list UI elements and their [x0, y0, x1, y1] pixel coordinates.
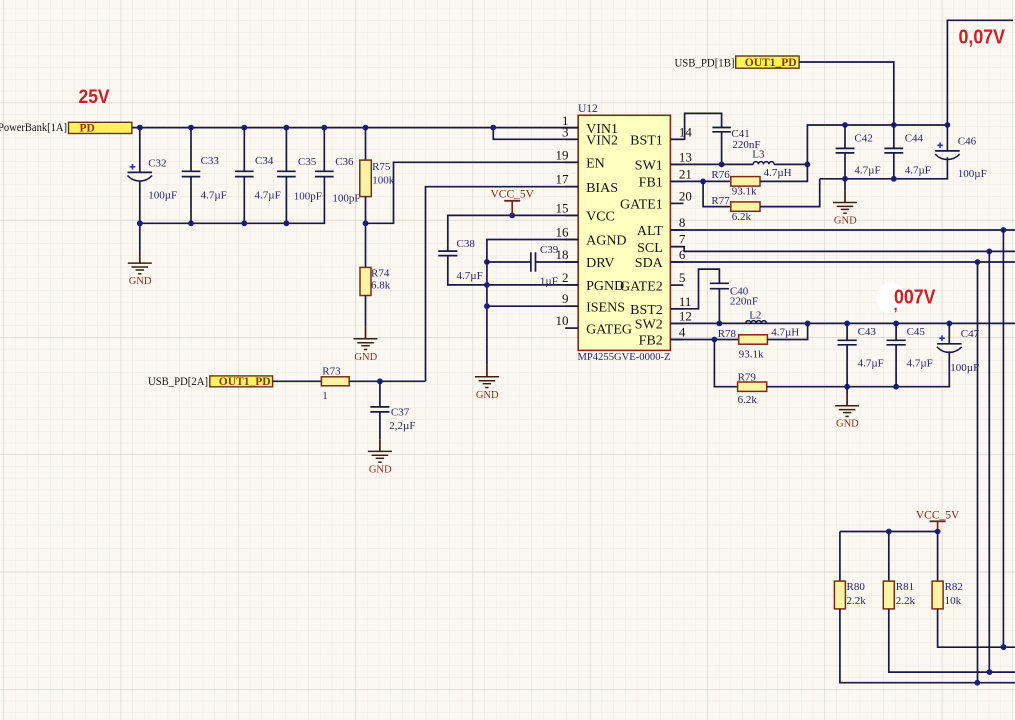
svg-text:R77: R77 [711, 195, 730, 207]
svg-text:17: 17 [556, 172, 570, 187]
wire R8x top bus [840, 529, 941, 535]
power VCC_5V bottom [916, 510, 960, 532]
wire SCL riser [988, 251, 990, 672]
svg-text:100k: 100k [372, 174, 395, 186]
svg-text:4.7µF: 4.7µF [858, 358, 884, 370]
svg-text:VIN2: VIN2 [586, 134, 618, 149]
inductor L2 [746, 309, 800, 338]
capacitor C47 leads [948, 323, 950, 343]
white highlight blob [877, 283, 906, 314]
wire DRV to C39 [536, 261, 579, 263]
svg-text:14: 14 [679, 124, 693, 139]
wire L3 to node [774, 162, 810, 168]
svg-text:C46: C46 [958, 136, 977, 148]
svg-text:18: 18 [556, 247, 569, 262]
wire FB1 net [670, 179, 730, 185]
capacitor C43 [838, 326, 884, 370]
svg-text:2.2k: 2.2k [847, 595, 867, 607]
svg-text:GND: GND [836, 419, 859, 430]
svg-text:FB2: FB2 [639, 334, 663, 349]
junction dots VIN bus [137, 125, 496, 131]
wire R76 to SW1 node [760, 164, 807, 181]
ground GND AGND [475, 365, 499, 401]
svg-text:4.7µF: 4.7µF [854, 165, 880, 177]
resistor R77 [711, 195, 760, 223]
wire R80 top lead [839, 532, 841, 582]
capacitor C45 leads [895, 323, 897, 386]
svg-text:C33: C33 [201, 155, 220, 167]
svg-text:0,07V: 0,07V [959, 27, 1006, 49]
svg-text:GATE2: GATE2 [620, 279, 663, 294]
junction dots out1 top bus [842, 122, 950, 128]
resistor R74 [360, 267, 391, 295]
svg-text:5: 5 [679, 270, 686, 285]
svg-text:7: 7 [679, 232, 686, 247]
wire SDA riser [977, 262, 979, 683]
svg-text:93.1k: 93.1k [732, 185, 757, 197]
svg-text:9: 9 [562, 291, 569, 306]
wire R74 bottom lead [365, 296, 367, 327]
svg-text:,: , [894, 297, 898, 314]
wire C41 to SW1 [719, 132, 725, 168]
svg-text:MP4255GVE-0000-Z: MP4255GVE-0000-Z [578, 351, 671, 363]
svg-text:L2: L2 [749, 309, 761, 321]
svg-text:4: 4 [679, 325, 686, 340]
capacitor C40 [710, 283, 758, 307]
svg-text:20: 20 [679, 188, 692, 203]
wire R82 top lead [937, 532, 939, 582]
wire OUT1_PD to R73 [273, 380, 322, 382]
svg-text:GATEG: GATEG [586, 322, 632, 337]
svg-text:GND: GND [369, 464, 392, 475]
wire EN net [366, 162, 579, 223]
resistor R73 [321, 366, 349, 402]
svg-text:OUT1_PD: OUT1_PD [219, 376, 271, 388]
svg-text:6.2k: 6.2k [738, 394, 758, 406]
wire R77 to gnd bus [760, 179, 820, 207]
net label OUT1_PD box 1B [736, 56, 799, 69]
ground GND C37 [368, 439, 392, 475]
svg-text:4.7µF: 4.7µF [255, 189, 281, 201]
capacitor C34 [235, 155, 281, 201]
capacitor C42 leads [844, 125, 846, 179]
capacitor C36 leads [323, 128, 325, 172]
svg-text:GND: GND [476, 390, 499, 401]
net label OUT1_PD box 2A [210, 376, 273, 388]
svg-text:6.2k: 6.2k [732, 211, 752, 223]
svg-text:SDA: SDA [635, 256, 664, 271]
wire ALT net [670, 227, 1015, 233]
svg-text:1µF: 1µF [540, 275, 558, 287]
voltage label 25V [79, 87, 110, 108]
wire AGND chain [487, 240, 578, 365]
capacitor C47 [937, 328, 980, 374]
svg-text:R79: R79 [738, 372, 757, 384]
capacitor C44 [884, 133, 931, 177]
junction C32 bottom [137, 220, 143, 226]
svg-text:100pF: 100pF [294, 190, 322, 202]
wire VIN2 jog [493, 128, 578, 140]
ground GND R74 [354, 327, 378, 363]
svg-text:VCC_5V: VCC_5V [490, 188, 534, 200]
svg-text:ALT: ALT [637, 224, 663, 239]
svg-text:GATE1: GATE1 [620, 198, 663, 213]
port USB_PD[1B] [675, 55, 735, 69]
svg-text:R76: R76 [711, 169, 730, 181]
wire SW2 net [670, 322, 1015, 324]
svg-text:C35: C35 [298, 156, 317, 168]
svg-text:007V: 007V [894, 287, 936, 309]
svg-text:10k: 10k [945, 595, 962, 607]
svg-text:U12: U12 [578, 103, 598, 115]
wire R73 to BIAS riser [349, 378, 425, 384]
svg-text:L3: L3 [752, 149, 765, 161]
resistor R79 [738, 372, 767, 406]
inductor L3 [752, 149, 791, 179]
svg-text:8: 8 [679, 215, 686, 230]
svg-text:SW2: SW2 [635, 318, 663, 333]
wire out1 gnd bus [820, 157, 948, 182]
svg-text:SW1: SW1 [635, 159, 663, 174]
wire SW1 to L3 [670, 163, 753, 165]
wire VCC net [448, 213, 578, 252]
capacitor C46 [935, 136, 987, 180]
svg-text:USB_PD[1B]: USB_PD[1B] [675, 55, 735, 69]
wire BIAS net riser [426, 187, 579, 382]
svg-text:4.7µH: 4.7µH [764, 167, 792, 179]
svg-text:DRV: DRV [586, 256, 614, 271]
capacitor C41 [712, 128, 760, 152]
designator U12 [578, 103, 598, 115]
svg-text:BST1: BST1 [630, 134, 663, 149]
wire SCL net [670, 247, 1015, 255]
resistor R82 [932, 581, 963, 609]
IC U12 body and pins [556, 113, 693, 351]
wire SW1 node riser to cap bus [807, 125, 947, 164]
svg-text:93.1k: 93.1k [739, 349, 764, 361]
wire top right 0,07V net [947, 20, 1013, 125]
svg-text:R74: R74 [371, 267, 390, 279]
wire R75-R74 node [363, 197, 369, 268]
svg-text:4.7µF: 4.7µF [457, 270, 483, 282]
svg-text:C37: C37 [391, 407, 410, 419]
svg-text:VCC_5V: VCC_5V [916, 510, 960, 522]
wire FB2 net [670, 337, 738, 343]
capacitor C33 leads [190, 128, 192, 224]
capacitor C34 leads [243, 128, 245, 224]
svg-text:GND: GND [834, 216, 857, 227]
capacitor C35 leads [285, 128, 287, 224]
svg-text:GND: GND [354, 352, 377, 363]
wire ISENS net [487, 305, 578, 307]
svg-text:100µF: 100µF [950, 362, 979, 374]
svg-text:100pF: 100pF [332, 192, 360, 204]
svg-text:2,2µF: 2,2µF [389, 420, 415, 432]
svg-text:4.7µF: 4.7µF [907, 358, 933, 370]
svg-text:PGND: PGND [586, 279, 624, 294]
junction dots AGND chain [484, 259, 490, 309]
svg-text:6.8k: 6.8k [371, 280, 391, 292]
voltage label 0,07V [959, 27, 1006, 49]
power VCC_5V top [490, 188, 534, 215]
capacitor C39 [531, 244, 559, 287]
svg-text:4.7µF: 4.7µF [201, 189, 227, 201]
junction dots bottom bus [137, 220, 289, 226]
resistor R81 [883, 581, 915, 609]
svg-text:R81: R81 [896, 581, 914, 593]
wire R81 bottom [889, 609, 1015, 675]
svg-text:VCC: VCC [586, 210, 615, 225]
svg-text:R78: R78 [718, 328, 737, 340]
resistor R78 [718, 328, 768, 361]
svg-text:C42: C42 [854, 133, 872, 145]
svg-text:C38: C38 [457, 238, 476, 250]
wire C39 to AGND [487, 261, 531, 263]
svg-text:C41: C41 [731, 128, 749, 140]
svg-text:C34: C34 [255, 155, 274, 167]
capacitor C38 [438, 238, 483, 282]
voltage label 007V [894, 287, 937, 315]
net label PD box [69, 122, 132, 134]
svg-text:R80: R80 [847, 581, 866, 593]
wire BST1 to C41 [670, 113, 721, 139]
capacitor C44 leads [893, 125, 895, 179]
capacitor C32 [128, 157, 178, 201]
svg-text:BST2: BST2 [630, 303, 663, 318]
wire R75 top lead [365, 128, 367, 161]
svg-text:25V: 25V [79, 87, 110, 108]
capacitor C42 [836, 133, 881, 177]
junction dots SW2 net [805, 321, 953, 327]
svg-text:ISENS: ISENS [586, 300, 625, 315]
svg-text:AGND: AGND [586, 234, 626, 249]
svg-text:C47: C47 [961, 328, 980, 340]
svg-text:PowerBank[1A]: PowerBank[1A] [0, 122, 67, 134]
svg-text:EN: EN [586, 157, 605, 172]
capacitor C35 [277, 156, 322, 203]
wire out2 gnd bus [767, 351, 950, 389]
wire R82 bottom [938, 609, 1015, 650]
svg-text:2.2k: 2.2k [896, 595, 916, 607]
svg-text:3: 3 [562, 124, 569, 139]
resistor R75 [360, 160, 395, 197]
svg-text:100µF: 100µF [148, 190, 177, 202]
capacitor C43 leads [846, 323, 848, 386]
resistor R80 [834, 581, 866, 609]
wire R81 top lead [888, 532, 890, 582]
capacitor C37 leads [379, 381, 381, 439]
svg-text:11: 11 [679, 294, 692, 309]
wire VIN bus [132, 127, 578, 129]
ground GND C43 [835, 387, 859, 430]
svg-text:2: 2 [562, 270, 569, 285]
svg-text:OUT1_PD: OUT1_PD [745, 57, 797, 69]
svg-text:13: 13 [679, 149, 692, 164]
svg-text:100µF: 100µF [958, 168, 987, 180]
svg-text:1: 1 [322, 390, 328, 402]
port PowerBank[1A] [0, 122, 67, 134]
svg-text:C45: C45 [907, 326, 926, 338]
capacitor C33 [182, 155, 227, 201]
svg-text:C32: C32 [148, 157, 166, 169]
svg-text:C36: C36 [335, 156, 354, 168]
wire cap bottom bus [140, 177, 325, 224]
ground GND C32 [128, 251, 152, 287]
wire PGND net [448, 256, 578, 285]
wire R78 to SW2 node [767, 323, 807, 339]
ground GND C42 [833, 179, 857, 227]
part number MP4255GVE-0000-Z [578, 351, 671, 363]
svg-text:FB1: FB1 [639, 176, 663, 191]
svg-text:16: 16 [556, 225, 570, 240]
wire R80 bottom [840, 609, 1015, 686]
svg-text:R73: R73 [322, 366, 341, 378]
capacitor C37 [370, 407, 415, 432]
svg-text:15: 15 [556, 200, 569, 215]
capacitor C45 [887, 326, 933, 370]
svg-text:SCL: SCL [637, 241, 663, 256]
svg-text:10: 10 [556, 313, 569, 328]
port USB_PD[2A] [148, 374, 208, 388]
svg-text:PD: PD [80, 122, 95, 134]
svg-text:USB_PD[2A]: USB_PD[2A] [148, 374, 208, 388]
wire C40 to SW2 [717, 289, 723, 327]
svg-text:4.7µH: 4.7µH [771, 327, 799, 339]
wire ALT riser [1002, 230, 1004, 647]
svg-text:C44: C44 [905, 133, 924, 145]
wire BST2 to C40 [670, 269, 719, 309]
svg-text:BIAS: BIAS [586, 181, 618, 196]
wire FB2 to R79 [714, 340, 737, 387]
wire FB1 to R77 [703, 181, 731, 206]
wire SDA net [670, 259, 1015, 265]
svg-text:12: 12 [679, 308, 692, 323]
svg-text:C43: C43 [858, 326, 877, 338]
svg-text:R75: R75 [372, 161, 391, 173]
svg-text:R82: R82 [945, 581, 963, 593]
capacitor C32 leads [139, 128, 141, 251]
resistor R76 [711, 169, 760, 197]
capacitor C46 leads [946, 125, 948, 151]
wire OUT1_PD 1B down [799, 62, 894, 125]
svg-text:21: 21 [679, 166, 692, 181]
capacitor C36 [315, 156, 361, 205]
svg-text:220nF: 220nF [730, 296, 758, 308]
svg-text:4.7µF: 4.7µF [905, 165, 931, 177]
svg-text:GND: GND [129, 276, 152, 287]
svg-text:19: 19 [556, 147, 569, 162]
